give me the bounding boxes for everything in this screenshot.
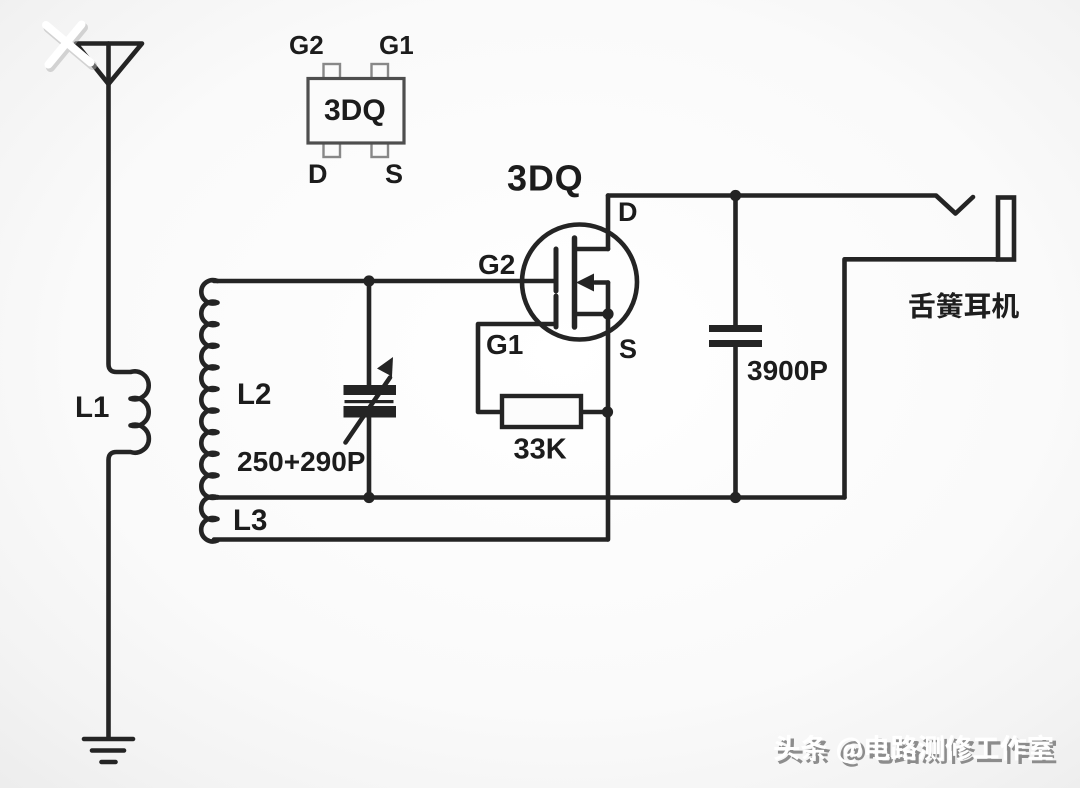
svg-text:3DQ: 3DQ [507,158,583,199]
svg-text:250+290P: 250+290P [237,446,365,477]
svg-text:3900P: 3900P [747,355,828,386]
svg-text:G1: G1 [486,329,523,360]
svg-text:D: D [618,197,638,227]
svg-text:33K: 33K [514,434,567,466]
svg-text:D: D [308,159,328,189]
svg-text:L1: L1 [75,391,109,424]
svg-text:S: S [619,334,637,364]
svg-text:S: S [385,159,403,189]
svg-text:L3: L3 [233,504,267,537]
svg-text:G1: G1 [379,30,414,60]
svg-text:3DQ: 3DQ [324,94,386,127]
svg-text:L2: L2 [237,378,271,411]
svg-text:G2: G2 [478,249,515,280]
svg-text:G2: G2 [289,30,324,60]
